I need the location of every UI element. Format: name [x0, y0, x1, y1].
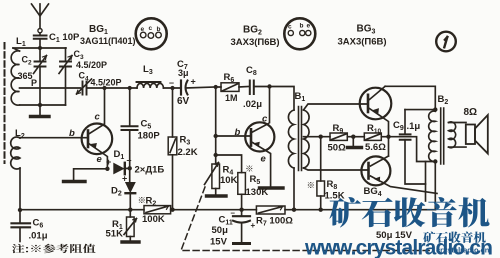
svg-text:e: e — [97, 154, 103, 165]
transformer B2 primary — [429, 111, 436, 161]
label R1 51K — [106, 219, 124, 240]
socket pinout BG1 — [136, 18, 167, 49]
svg-text:1M: 1M — [225, 93, 238, 103]
variable capacitor C3 — [59, 48, 72, 105]
label B1 — [295, 91, 306, 103]
svg-text:c: c — [95, 112, 101, 123]
label L1 — [16, 36, 26, 48]
svg-text:b: b — [69, 128, 75, 139]
node: B2 bottom — [433, 159, 437, 163]
label 50u 15V (under watermark) — [376, 230, 413, 241]
transformer B2 core — [441, 108, 444, 164]
svg-text:e: e — [307, 23, 311, 30]
svg-text:3AX3(П6В): 3AX3(П6В) — [338, 37, 387, 48]
svg-text:+: + — [251, 221, 256, 230]
ground (BG1 emitter) — [64, 180, 86, 183]
wire L3 to C7 — [163, 87, 180, 89]
node: BG1 emitter junction — [105, 167, 109, 171]
wire output node down — [388, 137, 390, 156]
transistor BG3 — [360, 86, 392, 136]
svg-text:15V: 15V — [210, 237, 228, 248]
label L3 — [143, 64, 153, 76]
star mark (R8) — [308, 182, 314, 188]
transformer B2 secondary — [449, 122, 467, 148]
svg-text:b: b — [300, 23, 304, 30]
svg-text:180P: 180P — [138, 131, 161, 142]
svg-text:3AG11(П401): 3AG11(П401) — [80, 36, 136, 46]
wire to B1 primary — [270, 87, 295, 111]
wire C9 bottom branch down — [425, 162, 427, 202]
inductor L3 — [137, 82, 164, 88]
svg-text:c: c — [262, 114, 268, 125]
electrolytic C7 3u 6V — [181, 81, 216, 95]
transistor BG1 — [20, 88, 112, 169]
watermark big kuangshi shouyinji — [329, 197, 489, 227]
label R7 100ohm — [256, 216, 293, 228]
transformer B1 primary — [288, 110, 294, 210]
node: C7/R6 corner — [214, 85, 218, 89]
svg-text:C1 10P: C1 10P — [49, 32, 80, 44]
transistor BG2 — [216, 122, 275, 186]
socket pinout BG2/BG3 — [284, 18, 315, 49]
wire BG3 collector to B2 — [385, 86, 435, 110]
svg-text:.1μ: .1μ — [407, 121, 421, 132]
resistor R9 50ohm — [330, 133, 353, 140]
node: B1 primary on rail — [292, 208, 296, 212]
wire L1 tap to C4 — [20, 87, 81, 89]
capacitor C5 180P — [122, 88, 138, 168]
wire tank bottom — [20, 104, 66, 106]
ground (R9/R10 mid) — [348, 137, 362, 148]
label R6 1M — [224, 72, 238, 103]
svg-text:e: e — [261, 154, 267, 165]
wire C4 to L3 (main HF line) — [87, 87, 138, 89]
ferrite rod (dashed) — [4, 43, 6, 163]
node: R3 top — [170, 86, 174, 90]
node: BG1 collector drop — [102, 86, 106, 90]
variable resistor R7 100ohm (in rail) — [256, 206, 285, 214]
watermark small kuangshi shouyinji — [423, 231, 486, 243]
label L2 — [15, 128, 25, 140]
svg-text:–: – — [231, 209, 236, 218]
label R9 50ohm — [328, 123, 347, 154]
label C6 .01u — [29, 218, 48, 242]
wire emitter to ground — [74, 169, 108, 180]
labels b c e (BG2) — [235, 114, 269, 165]
diode D2 — [126, 168, 136, 209]
transistor BG4 — [361, 156, 437, 194]
wire B1 center tap — [304, 136, 331, 138]
svg-text:+: + — [106, 157, 111, 167]
label D1 + - — [106, 149, 132, 167]
node: output (BG3 e / BG4 c) — [386, 135, 390, 139]
svg-text:c: c — [288, 24, 292, 31]
label C9 .1u — [393, 120, 420, 132]
svg-text:8Ω: 8Ω — [464, 107, 478, 118]
label C5 180P — [138, 119, 161, 142]
label C2 365P — [18, 55, 38, 89]
node: R9/R10 mid — [351, 135, 355, 139]
node: D1/D2/C5 junction — [128, 166, 132, 170]
wire: drop to bias chain — [215, 87, 217, 155]
note zhu: ref values — [12, 244, 96, 253]
label BG1 3AG11(P401) — [80, 24, 136, 46]
svg-text:.02μ: .02μ — [243, 99, 262, 110]
label C11 50u 15V — [210, 209, 256, 248]
transformer B1 secondary — [304, 104, 369, 170]
potentiometer R1 51K — [124, 210, 137, 241]
svg-text:3μ: 3μ — [178, 68, 189, 78]
svg-text:10K: 10K — [220, 175, 238, 186]
wire BG2 collector drop — [269, 87, 271, 123]
label R3 2.2K — [178, 135, 198, 159]
svg-text:50μ: 50μ — [212, 225, 229, 236]
svg-text:4.5/20P: 4.5/20P — [91, 78, 122, 88]
label R4 10K — [220, 165, 238, 187]
label 8ohm — [464, 107, 478, 118]
svg-text:+: + — [191, 77, 196, 87]
resistor R3 2.2K — [168, 88, 177, 210]
svg-text:–: – — [169, 78, 174, 88]
label C3 4.5/20P — [74, 49, 108, 70]
label BG4 — [364, 186, 382, 198]
node: C1/C2 junction — [38, 46, 42, 50]
potentiometer R4 10K — [205, 155, 220, 195]
resistor R2 100K (in rail) — [144, 206, 171, 214]
capacitor C8 .02u — [250, 81, 270, 95]
svg-text:R7 100Ω: R7 100Ω — [256, 216, 293, 228]
svg-text:+: + — [122, 174, 127, 184]
wire tank top rail — [13, 47, 66, 49]
star mark (R2) — [139, 197, 145, 203]
label R10 5.6ohm — [365, 123, 386, 153]
svg-text:3AX3(П6В): 3AX3(П6В) — [231, 37, 280, 48]
label BG2 3AX3(P6B) — [231, 25, 280, 49]
label B2 — [438, 94, 449, 106]
inductor L1 — [11, 48, 19, 105]
node: R3 on rail — [170, 208, 174, 212]
label *R5 130K — [246, 174, 269, 198]
ground (R4) — [207, 194, 227, 197]
diode D1 — [114, 163, 130, 174]
svg-text:P: P — [31, 78, 37, 88]
label C1 10P — [49, 32, 80, 44]
node: center tap / R8 — [319, 135, 323, 139]
node: C5 drop — [128, 86, 132, 90]
svg-text:.01μ: .01μ — [29, 231, 48, 242]
transformer B1 core — [299, 107, 302, 171]
node: B2 top — [433, 107, 437, 111]
resistor R6 1M — [216, 83, 249, 92]
svg-text:2×Д1Б: 2×Д1Б — [135, 165, 165, 176]
node: R8 on rail — [319, 208, 323, 212]
svg-text:6V: 6V — [177, 96, 190, 107]
ground (BG2 emitter) — [260, 186, 284, 189]
wire output to B2 bottom — [389, 137, 436, 162]
label *R8 1.5K — [325, 179, 345, 202]
capacitor C1 — [34, 36, 47, 49]
node: BG2 collector / B1 top — [267, 84, 271, 88]
capacitor C6 .01u — [12, 208, 31, 242]
svg-text:130K: 130K — [246, 187, 269, 198]
dashed gang line (R4 to switch) — [181, 187, 430, 251]
antenna — [32, 4, 49, 35]
svg-text:51K: 51K — [106, 229, 124, 240]
capacitor C9 .1u — [400, 110, 436, 184]
ground (R1) — [122, 240, 139, 243]
node: R4/R5 node — [214, 153, 218, 157]
node: R5/C11 on rail — [239, 208, 243, 212]
svg-text:b: b — [157, 26, 161, 33]
figure number circle 1 — [436, 32, 456, 52]
resistor R10 5.6ohm — [353, 133, 388, 140]
svg-text:e: e — [141, 26, 145, 33]
label *R2 100K — [142, 196, 165, 226]
label 2xD1B — [135, 165, 165, 176]
label BG3 3AX3(P6B) — [338, 24, 387, 48]
svg-text:4.5/20P: 4.5/20P — [76, 60, 107, 70]
speaker — [466, 115, 488, 154]
variable capacitor C4 — [77, 79, 92, 95]
svg-text:www.crystalradio.cn: www.crystalradio.cn — [304, 237, 493, 258]
svg-text:100K: 100K — [142, 214, 165, 225]
electrolytic C11 50u 15V — [233, 210, 250, 244]
resistor R5 130K — [216, 155, 246, 210]
wire B2 bottom down to rail — [434, 162, 436, 210]
svg-text:c: c — [149, 25, 153, 32]
svg-text:5.6Ω: 5.6Ω — [365, 142, 386, 153]
node: tank bottom / C2 — [38, 103, 42, 107]
ground (tank) — [31, 105, 50, 117]
label C7 3u 6V — [169, 59, 196, 107]
node: D2/R1 on rail — [128, 208, 132, 212]
svg-text:2.2K: 2.2K — [178, 147, 198, 158]
star mark (R5) — [246, 166, 252, 172]
bottom supply rail — [20, 209, 436, 211]
node: bias divider top — [214, 134, 218, 138]
label D2 + — [111, 174, 127, 198]
inductor L2 — [11, 137, 20, 210]
resistor R8 1.5K — [317, 170, 325, 210]
wire center tap down — [320, 137, 322, 170]
label C8 .02u — [243, 65, 262, 110]
svg-text:50Ω: 50Ω — [328, 143, 347, 154]
variable capacitor C2 365P — [34, 48, 47, 105]
label C4 4.5/20P — [79, 71, 122, 88]
svg-text:b: b — [235, 127, 241, 138]
labels b c e (BG1) — [69, 112, 103, 166]
